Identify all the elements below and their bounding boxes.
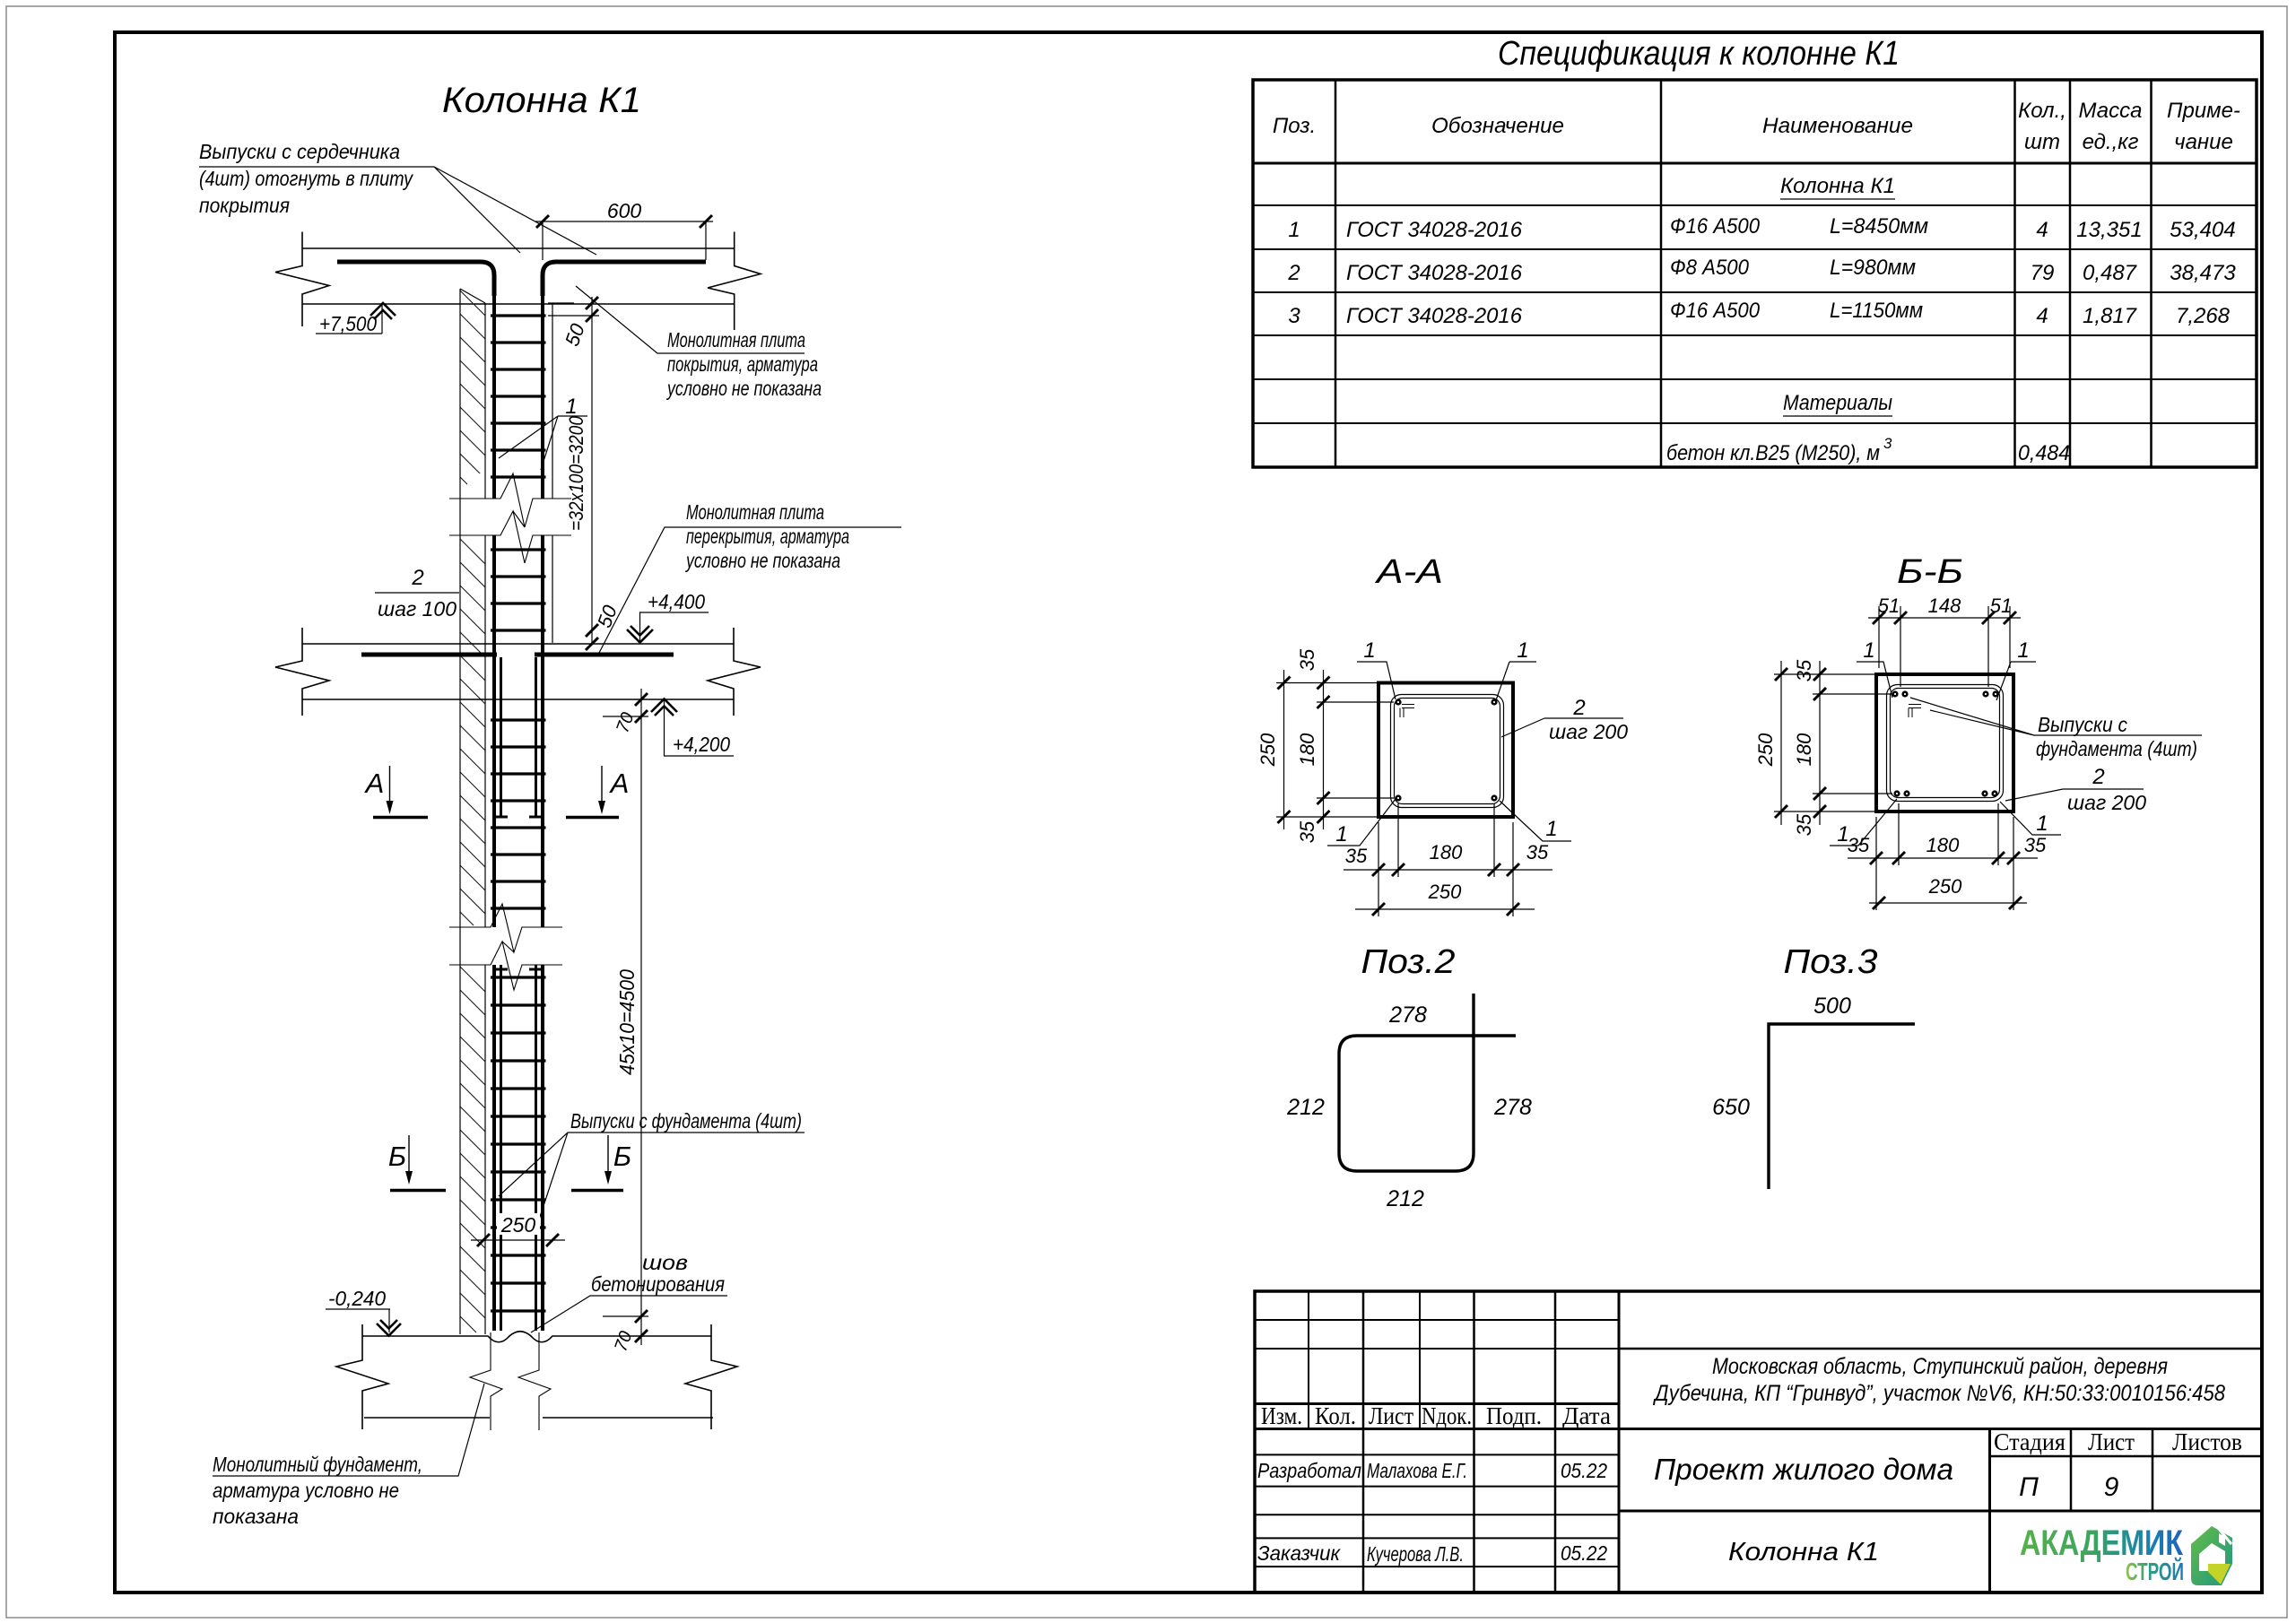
svg-text:05.22: 05.22 (1561, 1541, 1607, 1565)
svg-text:2: 2 (1572, 696, 1585, 720)
svg-text:Монолитная плита: Монолитная плита (686, 500, 824, 524)
pos.2 dims (1286, 1002, 1532, 1211)
svg-text:L=1150мм: L=1150мм (1830, 299, 1923, 323)
svg-text:показана: показана (213, 1505, 299, 1528)
svg-text:250: 250 (1928, 875, 1962, 898)
top slab left break line (275, 232, 329, 327)
svg-text:чание: чание (2174, 130, 2233, 154)
pos.3 L bar shape (1769, 1024, 1915, 1189)
svg-text:бетон кл.В25 (М250), м: бетон кл.В25 (М250), м (1666, 441, 1880, 465)
svg-text:Поз.: Поз. (1273, 114, 1316, 138)
svg-text:53,404: 53,404 (2170, 218, 2235, 242)
svg-text:=32x100=3200: =32x100=3200 (565, 415, 587, 531)
label: шов бетонирования (531, 1251, 727, 1332)
svg-text:Ф8 А500: Ф8 А500 (1670, 256, 1750, 280)
svg-text:Дата: Дата (1562, 1402, 1611, 1429)
label 2 шаг 100 (375, 566, 459, 621)
svg-text:Ф16 А500: Ф16 А500 (1670, 299, 1761, 323)
stirrups pos.2 ladder (491, 316, 546, 1311)
svg-text:Б-Б: Б-Б (1897, 553, 1963, 591)
dimension 600 (top) (535, 199, 713, 260)
svg-text:Поз.3: Поз.3 (1784, 943, 1878, 981)
svg-text:79: 79 (2031, 261, 2055, 285)
svg-text:1: 1 (565, 395, 577, 419)
svg-text:35: 35 (1296, 820, 1318, 843)
svg-text:Малахова Е.Г.: Малахова Е.Г. (1367, 1459, 1467, 1482)
svg-text:250: 250 (1428, 881, 1462, 903)
middle slab rebar (thick) (361, 653, 674, 657)
signature rows (1257, 1459, 1607, 1566)
section mark A-A (364, 766, 630, 818)
title block right-part lines (1619, 1348, 2262, 1350)
svg-text:51: 51 (1878, 595, 1900, 617)
svg-text:Изм.: Изм. (1261, 1402, 1302, 1429)
svg-text:2: 2 (411, 566, 423, 590)
svg-text:250: 250 (1754, 733, 1777, 767)
svg-text:0,484: 0,484 (2018, 441, 2070, 465)
svg-text:278: 278 (1493, 1095, 1532, 1120)
svg-text:Листов: Листов (2172, 1428, 2242, 1455)
foundation outlet / lap bars (494, 657, 543, 1331)
spec table grid (1253, 80, 2257, 467)
top slab (монолитная плита покрытия) outline (275, 232, 761, 331)
svg-text:Разработал: Разработал (1257, 1459, 1361, 1482)
svg-text:1: 1 (1335, 822, 1347, 846)
svg-text:180: 180 (1926, 834, 1960, 856)
svg-text:ГОСТ 34028-2016: ГОСТ 34028-2016 (1346, 304, 1523, 328)
svg-text:250: 250 (500, 1213, 536, 1237)
svg-text:-0,240: -0,240 (328, 1287, 386, 1310)
main bars pos.1 (thick verticals) (494, 296, 543, 1331)
level mark +4,400 (627, 590, 709, 643)
label: монолитная плита покрытия (576, 286, 822, 400)
svg-text:шаг 200: шаг 200 (2067, 791, 2146, 814)
title block horizontal lines left part (1255, 1291, 2262, 1593)
svg-text:650: 650 (1712, 1095, 1750, 1120)
spec table rows (1287, 174, 2236, 465)
svg-text:бетонирования: бетонирования (591, 1272, 725, 1296)
svg-text:Ф16 А500: Ф16 А500 (1670, 214, 1761, 239)
level mark +4,200 (651, 699, 734, 757)
svg-text:212: 212 (1286, 1095, 1325, 1120)
Б-Б rebar dot pairs (bars + outlets) (1892, 690, 1998, 796)
svg-text:Проект жилого дома: Проект жилого дома (1654, 1453, 1953, 1486)
svg-text:05.22: 05.22 (1561, 1459, 1607, 1482)
logo house icon (2191, 1523, 2232, 1585)
label: выпуски с фундамента (4шт) (499, 1109, 804, 1219)
A-A stirrup hook mark (1400, 705, 1414, 718)
svg-text:Дубечина, КП “Гринвуд”, участо: Дубечина, КП “Гринвуд”, участок №V6, КН:… (1652, 1381, 2225, 1406)
svg-text:+4,400: +4,400 (648, 590, 705, 613)
svg-text:35: 35 (1345, 845, 1368, 867)
svg-text:180: 180 (1430, 841, 1463, 864)
dim 250 at column base (471, 1213, 565, 1246)
pos label 1 with leaders to bars (499, 395, 587, 470)
dim 70 at foundation joint (603, 1310, 648, 1354)
svg-text:4: 4 (2036, 304, 2048, 328)
svg-text:2: 2 (2092, 765, 2104, 789)
svg-text:Колонна К1: Колонна К1 (442, 81, 641, 120)
svg-text:51: 51 (1990, 595, 2012, 617)
svg-text:13,351: 13,351 (2076, 218, 2142, 242)
svg-text:4: 4 (2036, 218, 2048, 242)
svg-text:2: 2 (1287, 261, 1300, 285)
svg-text:Колонна К1: Колонна К1 (1728, 1538, 1879, 1567)
svg-text:покрытия, арматура: покрытия, арматура (667, 352, 818, 376)
svg-text:0,487: 0,487 (2083, 261, 2138, 285)
svg-text:1: 1 (1545, 817, 1557, 841)
Б-Б stirrup hook mark (1909, 705, 1921, 718)
svg-text:(4шт) отогнуть в плиту: (4шт) отогнуть в плиту (199, 167, 413, 190)
middle slab (перекрытие) (275, 628, 761, 716)
A-A bottom dims (1344, 803, 1552, 916)
label: монолитная плита перекрытия (599, 500, 901, 653)
svg-text:Nдок.: Nдок. (1422, 1402, 1472, 1429)
svg-text:шаг 100: шаг 100 (378, 597, 457, 621)
svg-text:Наименование: Наименование (1762, 114, 1913, 138)
svg-text:Приме-: Приме- (2167, 99, 2240, 123)
header labels (serif) (1261, 1402, 2242, 1455)
svg-text:Монолитная плита: Монолитная плита (667, 328, 805, 352)
svg-text:1,817: 1,817 (2083, 304, 2138, 328)
svg-text:45x10=4500: 45x10=4500 (615, 969, 639, 1075)
svg-text:Подп.: Подп. (1486, 1402, 1542, 1429)
svg-text:шаг 200: шаг 200 (1549, 720, 1628, 743)
svg-text:250: 250 (1257, 733, 1279, 767)
Б-Б top dims 51/148/51 (1868, 606, 2021, 687)
svg-text:Монолитный фундамент,: Монолитный фундамент, (213, 1453, 422, 1476)
svg-text:СТРОЙ: СТРОЙ (2126, 1557, 2184, 1585)
label: выпуски с сердечника (199, 140, 596, 255)
svg-text:шт: шт (2024, 130, 2060, 154)
section mark Б-Б (388, 1135, 631, 1191)
Б-Б left dims 250 and 35/180/35 (1774, 661, 1892, 825)
svg-text:1: 1 (2017, 638, 2029, 663)
svg-text:L=8450мм: L=8450мм (1830, 214, 1928, 239)
svg-text:9: 9 (2104, 1472, 2119, 1502)
svg-text:35: 35 (1793, 659, 1815, 681)
svg-text:Выпуски с: Выпуски с (2038, 713, 2127, 736)
svg-text:180: 180 (1296, 733, 1318, 766)
A-A left dims 250 and 35/180/35 (1276, 670, 1394, 829)
svg-text:148: 148 (1928, 595, 1961, 617)
svg-text:А: А (364, 768, 385, 799)
svg-text:3: 3 (1883, 435, 1892, 452)
svg-text:3: 3 (1288, 304, 1300, 328)
spec table header texts (1273, 99, 2240, 154)
svg-text:Б: Б (388, 1141, 406, 1172)
top slab right break line (708, 232, 761, 331)
svg-text:условно не показана: условно не показана (684, 549, 840, 572)
svg-text:Заказчик: Заказчик (1257, 1541, 1341, 1565)
svg-text:перекрытия, арматура: перекрытия, арматура (686, 525, 849, 548)
svg-text:1: 1 (1288, 218, 1300, 242)
svg-text:условно не показана: условно не показана (665, 377, 822, 400)
svg-text:Выпуски с фундамента (4шт): Выпуски с фундамента (4шт) (570, 1109, 802, 1133)
label: монолитный фундамент (213, 1384, 484, 1528)
title block outer (1255, 1291, 2262, 1593)
svg-text:35: 35 (1848, 834, 1870, 856)
svg-text:278: 278 (1388, 1002, 1427, 1028)
column long-break symbol upper (449, 473, 571, 563)
A-A rebar dots (1395, 699, 1497, 801)
dim 70 at +4,200 and 45x10=4500 line (603, 689, 648, 1345)
svg-text:ГОСТ 34028-2016: ГОСТ 34028-2016 (1346, 218, 1523, 242)
dim line 50 / 32x100 / 50 (right of column) (548, 297, 622, 650)
svg-text:шов: шов (642, 1251, 688, 1274)
svg-text:+4,200: +4,200 (673, 733, 730, 756)
svg-text:35: 35 (1526, 841, 1549, 864)
svg-text:А: А (609, 768, 630, 799)
svg-text:35: 35 (1296, 648, 1318, 671)
A-A pos.1 callouts (1335, 638, 1557, 846)
svg-text:ГОСТ 34028-2016: ГОСТ 34028-2016 (1346, 261, 1523, 285)
svg-text:Материалы: Материалы (1783, 391, 1892, 415)
A-A stirrup (1391, 695, 1504, 808)
svg-text:Б: Б (613, 1141, 631, 1172)
svg-text:35: 35 (2024, 834, 2047, 856)
Б-Б bottom dims (1848, 803, 2038, 910)
wall hatch band (460, 291, 485, 1332)
foundation (336, 1324, 737, 1430)
svg-text:38,473: 38,473 (2170, 261, 2236, 285)
svg-text:Спецификация к колонне К1: Спецификация к колонне К1 (1498, 35, 1900, 73)
title block vertical lines left part (1309, 1291, 1420, 1429)
svg-text:212: 212 (1386, 1186, 1424, 1211)
svg-text:600: 600 (607, 199, 642, 222)
svg-text:1: 1 (1363, 638, 1375, 663)
svg-text:180: 180 (1793, 733, 1815, 766)
svg-text:500: 500 (1813, 994, 1851, 1019)
svg-text:Выпуски с сердечника: Выпуски с сердечника (199, 140, 400, 163)
svg-text:+7,500: +7,500 (319, 312, 377, 335)
svg-text:Кучерова Л.В.: Кучерова Л.В. (1367, 1542, 1464, 1566)
top slab rebar with bends (4 outlets bent into roof slab) (337, 262, 706, 296)
svg-text:Лист: Лист (2088, 1428, 2135, 1455)
svg-text:Московская область, Ступинский: Московская область, Ступинский район, де… (1712, 1354, 2168, 1379)
svg-text:Поз.2: Поз.2 (1361, 943, 1456, 981)
svg-text:П: П (2019, 1472, 2039, 1502)
Б-Б pos.1 callouts (1837, 638, 2048, 846)
svg-text:Кол.,: Кол., (2018, 99, 2066, 123)
svg-text:А-А: А-А (1375, 553, 1443, 591)
level mark -0,240 (326, 1287, 401, 1336)
svg-text:фундамента (4шт): фундамента (4шт) (2036, 737, 2197, 760)
svg-text:покрытия: покрытия (199, 194, 290, 217)
pos.2 stirrup shape (1339, 994, 1516, 1171)
svg-text:Масса: Масса (2079, 99, 2143, 123)
column long-break symbol lower (449, 904, 562, 990)
svg-text:35: 35 (1793, 813, 1815, 836)
svg-text:7,268: 7,268 (2176, 304, 2231, 328)
svg-text:арматура условно не: арматура условно не (213, 1479, 399, 1502)
svg-text:1: 1 (2036, 811, 2048, 836)
Б-Б concrete outline (1876, 674, 2013, 811)
level mark +7,500 (316, 303, 396, 335)
A-A concrete outline (1378, 683, 1513, 818)
svg-text:1: 1 (1863, 638, 1874, 663)
svg-text:Лист: Лист (1369, 1402, 1413, 1429)
Б-Б stirrup (1887, 685, 2004, 802)
svg-text:Кол.: Кол. (1315, 1402, 1356, 1429)
svg-text:Колонна К1: Колонна К1 (1780, 174, 1895, 198)
svg-text:Обозначение: Обозначение (1431, 114, 1564, 138)
svg-text:ед.,кг: ед.,кг (2083, 130, 2139, 154)
svg-text:1: 1 (1517, 638, 1528, 663)
svg-text:Стадия: Стадия (1994, 1428, 2066, 1455)
svg-text:L=980мм: L=980мм (1830, 256, 1916, 280)
